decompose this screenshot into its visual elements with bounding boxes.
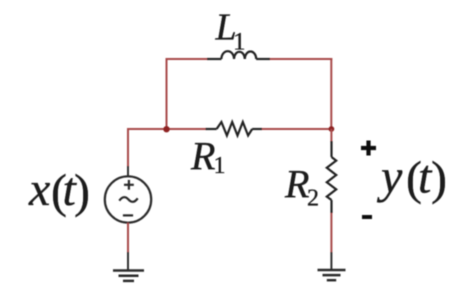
wire: vertical down to source top	[127, 128, 129, 166]
svg-text:2: 2	[307, 186, 319, 212]
resistor R1	[206, 122, 263, 136]
svg-text:y: y	[376, 151, 403, 204]
ground (left)	[113, 271, 144, 281]
plus output terminal mark	[361, 141, 376, 156]
svg-text:): )	[74, 165, 90, 218]
wire: R2 bottom to ground	[330, 213, 332, 252]
svg-text:1: 1	[233, 29, 246, 56]
resistor R2	[327, 141, 336, 213]
ground (right)	[318, 270, 346, 280]
wire: source bottom to ground	[127, 223, 129, 252]
wire: left leg of L1 branch (vertical)	[166, 59, 168, 129]
svg-text:x: x	[28, 163, 50, 216]
wire: right vertical above R2	[330, 129, 332, 142]
svg-text:R: R	[284, 162, 309, 207]
node: junction dot right	[329, 126, 335, 132]
wire: right leg of L1 branch (vertical)	[330, 58, 332, 129]
minus output terminal mark	[362, 215, 372, 219]
svg-text:): )	[431, 152, 447, 205]
inductor L1	[207, 51, 270, 59]
source: AC voltage source circle	[105, 176, 151, 222]
wire: middle horizontal right segment	[261, 128, 332, 130]
wire: top horizontal left of L1	[166, 58, 210, 60]
svg-text:R: R	[190, 134, 215, 179]
svg-text:1: 1	[214, 153, 226, 179]
wire: middle horizontal left segment	[127, 128, 206, 130]
wire: top horizontal right of L1	[268, 58, 332, 60]
plus inside source	[124, 180, 134, 190]
minus inside source	[123, 214, 133, 216]
tilde inside source	[119, 197, 137, 202]
node: junction dot left	[163, 126, 169, 132]
